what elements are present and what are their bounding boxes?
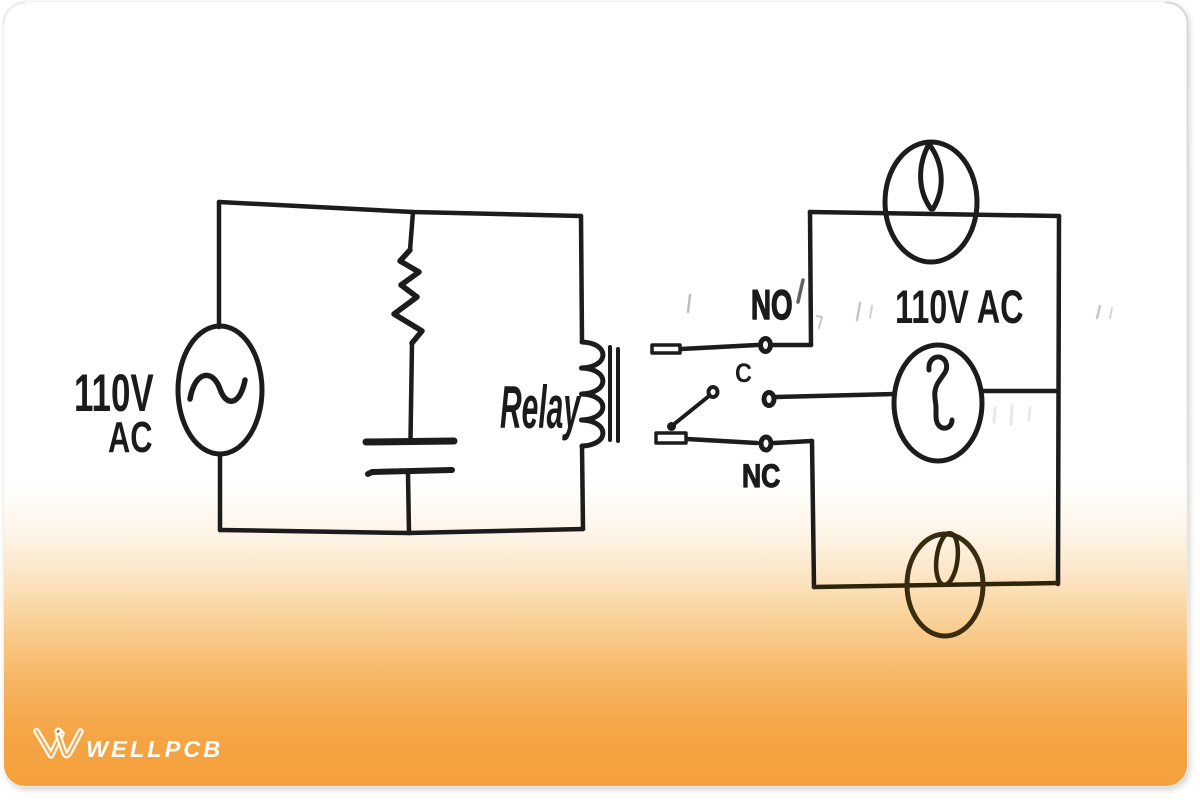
- wire: middle branch between resistor and capacitor: [411, 343, 413, 440]
- wire: NO riser: [810, 212, 811, 345]
- wire: right loop right vertical: [1058, 216, 1059, 584]
- svg-text:Relay: Relay: [500, 375, 582, 442]
- switch arm pivot circle: [709, 387, 718, 397]
- stray pen tick right of NO: [798, 280, 803, 302]
- capacitor C1 top plate: [366, 441, 454, 442]
- contact NC: [761, 437, 771, 450]
- AC source V2: [894, 345, 982, 461]
- capacitor C1 bottom plate: [368, 470, 452, 474]
- lamp L2 inner loop: [933, 532, 960, 586]
- AC source V1: [178, 326, 262, 454]
- wire: left loop right lower: [582, 446, 583, 529]
- wire: left loop top: [219, 202, 581, 216]
- wire: C to source V2: [776, 394, 894, 397]
- contact C: [764, 393, 774, 406]
- AC source V1 sine symbol: [190, 375, 245, 401]
- lamp L1: [885, 142, 977, 262]
- faint mark right of NO riser: [817, 316, 822, 328]
- lamp L2: [907, 534, 983, 636]
- lamp L1 lens: [921, 144, 942, 209]
- relay core line 2: [616, 349, 620, 441]
- wire: NC lead: [687, 439, 757, 443]
- svg-text:AC: AC: [108, 414, 152, 463]
- wire: right loop top: [810, 212, 1059, 216]
- faint smudges below C wire: [994, 408, 995, 422]
- wire: NO lead: [681, 345, 757, 349]
- wire: right loop bottom: [814, 583, 1058, 587]
- NO terminal bar: [652, 345, 680, 353]
- faint pencil marks right of 110V AC: [1097, 306, 1100, 318]
- svg-text:NO: NO: [751, 281, 793, 328]
- relay coil K1: [582, 342, 603, 446]
- wire: NC drop vertical: [812, 441, 814, 587]
- svg-text:NC: NC: [742, 459, 780, 495]
- AC source V2 squiggle: [929, 357, 952, 428]
- wire: left loop right upper: [581, 216, 582, 342]
- switch arm pivot dot: [668, 423, 675, 430]
- svg-text:110V AC: 110V AC: [895, 280, 1024, 334]
- wire: left loop left upper: [217, 202, 222, 327]
- logo WELLPCB W icon: [37, 729, 81, 756]
- NC terminal bar: [656, 433, 686, 443]
- faint pencil marks left of 110V AC: [857, 303, 860, 320]
- wire: left loop left lower: [218, 454, 223, 530]
- wire: left loop bottom: [220, 529, 583, 533]
- card right edge line: [1166, 2, 1188, 700]
- wire: middle branch lower: [408, 474, 409, 533]
- card top-left corner arc: [4, 3, 25, 24]
- svg-text:WELLPCB: WELLPCB: [86, 736, 223, 762]
- contact NO: [761, 339, 771, 352]
- relay core line 1: [608, 347, 612, 440]
- resistor R1: [394, 250, 422, 343]
- switch arm: [673, 396, 709, 425]
- wire: NO to riser: [773, 343, 811, 348]
- wire: middle branch upper: [410, 212, 413, 250]
- wire: V2 to right vertical: [982, 389, 1058, 394]
- faint pencil mark left of NO: [688, 295, 690, 312]
- svg-text:C: C: [735, 359, 752, 389]
- wire: NC to drop: [774, 441, 812, 443]
